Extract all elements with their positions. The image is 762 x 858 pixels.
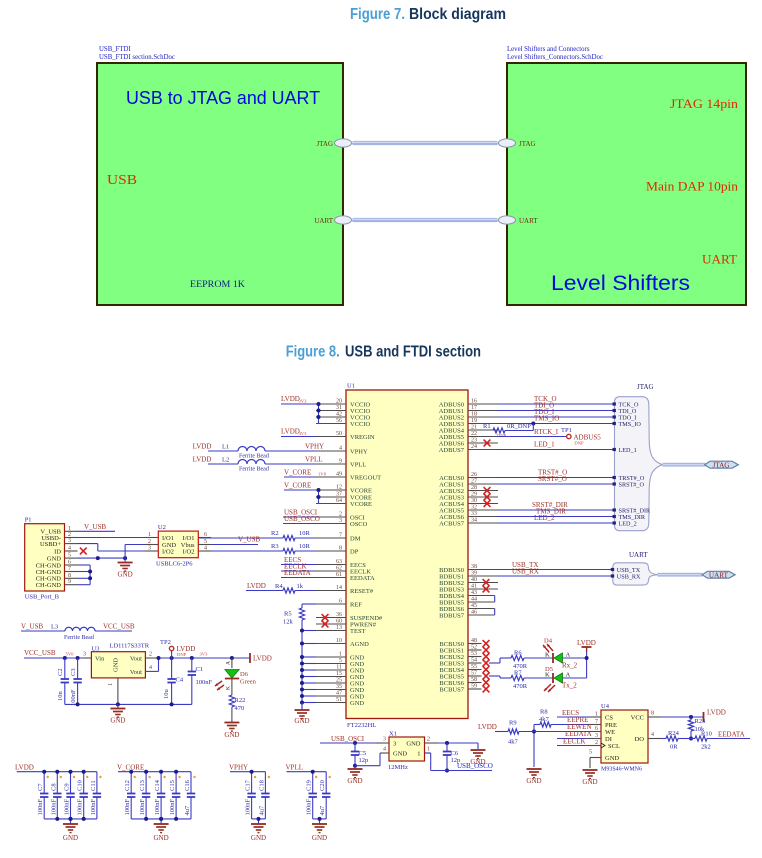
svg-text:5: 5	[204, 539, 207, 545]
svg-text:1: 1	[68, 526, 71, 532]
svg-text:DM: DM	[350, 535, 361, 542]
svg-text:VPLL: VPLL	[286, 764, 304, 772]
U1 pin 46 BDBUS7	[439, 610, 495, 620]
svg-text:42: 42	[336, 412, 342, 418]
svg-text:39: 39	[471, 571, 477, 577]
U1 pin 43 BDBUS4	[439, 590, 495, 600]
U2 pin 3 I/O2	[146, 546, 174, 556]
svg-text:20: 20	[336, 399, 342, 405]
U1 pin 36 SUSPEND#	[316, 612, 383, 622]
svg-text:UART: UART	[702, 252, 737, 267]
svg-text:R10: R10	[701, 731, 712, 738]
svg-text:40: 40	[471, 577, 477, 583]
svg-text:2: 2	[339, 512, 342, 518]
svg-text:3V3: 3V3	[299, 399, 308, 404]
svg-text:0R_DNP: 0R_DNP	[507, 423, 531, 430]
svg-text:27: 27	[471, 479, 477, 485]
svg-text:LD1117S33TR: LD1117S33TR	[110, 643, 150, 650]
ground symbol U3	[110, 704, 125, 724]
svg-text:3: 3	[383, 737, 386, 743]
IC U2 USBLC6-2P6 body	[156, 524, 198, 568]
sheet symbol label USB_FTDI	[99, 46, 175, 61]
resistor R9 4k7 (EEWEN)	[478, 720, 592, 746]
svg-text:2: 2	[427, 737, 430, 743]
svg-text:LED_2: LED_2	[619, 520, 637, 527]
net SRST#_DIR wire	[498, 501, 615, 510]
svg-text:R2: R2	[271, 530, 279, 537]
svg-text:VCC: VCC	[631, 714, 644, 721]
net USB_TX wire	[498, 561, 613, 570]
svg-text:OSCO: OSCO	[350, 521, 368, 528]
svg-text:USB_FTDI section.SchDoc: USB_FTDI section.SchDoc	[99, 54, 175, 61]
U1 pin 12 VCORE	[316, 485, 372, 495]
U1 pin 51 GND	[316, 697, 364, 707]
svg-text:I/O1: I/O1	[183, 535, 195, 542]
svg-text:Level Shifters: Level Shifters	[551, 272, 690, 295]
P1 pin 4 ID	[54, 546, 77, 556]
U1 pin 21 ADBUS4	[439, 425, 498, 435]
svg-text:ACBUS7: ACBUS7	[439, 520, 465, 527]
svg-text:EECLK: EECLK	[563, 737, 586, 745]
U1 pin 28 ACBUS2	[439, 485, 498, 495]
svg-text:100nF: 100nF	[77, 799, 84, 816]
svg-text:LVDD: LVDD	[281, 428, 300, 436]
U1 pin 33 ACBUS6	[439, 511, 498, 521]
svg-text:LVDD: LVDD	[193, 456, 212, 464]
svg-text:L1: L1	[222, 444, 229, 451]
svg-text:VPLL: VPLL	[350, 461, 366, 468]
net USB_OSCO wire	[425, 753, 493, 771]
svg-text:25: 25	[336, 678, 342, 684]
IC U3 LD1117S33TR body	[91, 643, 149, 678]
harness title UART	[629, 551, 648, 559]
net VCC_USB rail	[24, 649, 83, 660]
no-ERC SUSPEND#	[322, 614, 329, 621]
U1 pin 53 BCBUS2	[439, 651, 481, 661]
no-ERC ACBUS4	[484, 500, 491, 507]
svg-text:10R: 10R	[299, 543, 311, 550]
U3 pin 4 stub	[145, 658, 158, 671]
UART bus wire between blocks	[352, 218, 498, 222]
test point TP1 (ADBUS5)	[498, 427, 601, 446]
svg-text:JTAG: JTAG	[713, 461, 730, 469]
svg-text:JTAG 14pin: JTAG 14pin	[670, 96, 739, 111]
U1 pin 37 VCORE	[316, 492, 372, 502]
U4 pin 7 PRE	[588, 719, 617, 729]
harness title JTAG	[637, 383, 654, 391]
svg-text:4u7: 4u7	[319, 805, 326, 816]
svg-text:46: 46	[471, 610, 477, 616]
svg-text:35: 35	[336, 684, 342, 690]
svg-text:4: 4	[383, 747, 386, 753]
svg-text:6: 6	[204, 532, 207, 538]
svg-text:3: 3	[595, 733, 598, 739]
svg-text:8: 8	[339, 546, 342, 552]
svg-text:C13: C13	[139, 780, 146, 791]
svg-text:VCORE: VCORE	[350, 501, 372, 508]
resistor R23 10k pullup	[688, 717, 705, 741]
svg-text:100nF: 100nF	[50, 799, 57, 816]
U1 pin 56 VCCIO	[316, 418, 371, 428]
svg-text:UART: UART	[629, 551, 648, 559]
svg-text:D6: D6	[240, 671, 249, 678]
svg-text:UART: UART	[519, 217, 538, 225]
svg-text:U2: U2	[158, 524, 166, 531]
svg-text:8: 8	[651, 711, 654, 717]
svg-text:Ferrite Bead: Ferrite Bead	[239, 454, 269, 460]
svg-text:Vout: Vout	[130, 669, 142, 676]
svg-text:31: 31	[336, 405, 342, 411]
U1 pin 61 EEDATA	[316, 572, 375, 582]
U2 pin 4 I/O2	[183, 546, 211, 556]
svg-text:C3: C3	[70, 668, 77, 676]
resistor R3 10R (DP)	[199, 543, 316, 554]
svg-text:EEDATA: EEDATA	[718, 731, 745, 739]
power port LVDD (regulator)	[250, 653, 272, 663]
no-ERC BDBUS2	[483, 579, 490, 586]
sheet entry UART (right block)	[499, 216, 539, 225]
svg-text:VPHY: VPHY	[229, 764, 248, 772]
svg-text:P1: P1	[25, 517, 32, 524]
svg-text:TMS_IO: TMS_IO	[534, 415, 559, 423]
capacitor bank LVDD C7-C11	[15, 764, 102, 843]
P1 pin 9 CH-GND	[36, 579, 78, 589]
U3 pin 3 stub	[83, 652, 91, 659]
U1 pin 22 ADBUS5	[439, 431, 498, 441]
wire loop BDBUS4-BDBUS5	[494, 596, 496, 603]
svg-text:6: 6	[68, 560, 71, 566]
svg-text:R24: R24	[668, 730, 680, 737]
svg-text:1V8: 1V8	[318, 472, 327, 477]
svg-text:RTCK_I: RTCK_I	[534, 428, 559, 436]
svg-text:21: 21	[471, 425, 477, 431]
U1 pin 18 ADBUS2	[439, 412, 498, 422]
svg-text:GND: GND	[63, 834, 78, 842]
svg-text:PRE: PRE	[605, 722, 617, 729]
ground symbol C5	[347, 766, 362, 785]
svg-text:CS: CS	[605, 714, 613, 721]
sheet symbol label Level Shifters	[507, 46, 603, 61]
svg-text:1: 1	[108, 683, 114, 686]
svg-text:VREGIN: VREGIN	[350, 434, 375, 441]
svg-text:EEDATA: EEDATA	[284, 569, 311, 577]
GND bus wires to U1	[300, 629, 316, 705]
U4 pin 3 DI	[588, 733, 612, 743]
svg-text:USB to JTAG and UART: USB to JTAG and UART	[126, 88, 320, 108]
svg-text:63: 63	[336, 559, 342, 565]
svg-text:4: 4	[651, 732, 654, 738]
svg-text:Rx_2: Rx_2	[562, 662, 578, 670]
svg-text:12p: 12p	[359, 757, 369, 764]
harness connector UART	[611, 563, 658, 585]
svg-text:C20: C20	[319, 780, 326, 791]
ferrite bead L2	[193, 456, 323, 473]
net V_USB wire at P1	[78, 523, 116, 532]
svg-text:GND: GND	[582, 778, 597, 786]
capacitor bank VPHY C17-C18	[229, 764, 270, 843]
svg-text:8: 8	[68, 573, 71, 579]
svg-text:C11: C11	[90, 780, 97, 791]
text USB	[107, 173, 137, 188]
svg-text:24: 24	[471, 444, 477, 450]
sheet entry JTAG (left block)	[316, 139, 351, 148]
svg-text:GND: GND	[251, 834, 266, 842]
U1 pin 50 VREGIN	[316, 431, 375, 441]
U1 pin 4 VPHY	[316, 446, 368, 456]
wire X1 pin2 to gnd	[438, 741, 479, 749]
svg-text:VPHY: VPHY	[305, 443, 324, 451]
svg-text:100nF: 100nF	[139, 799, 146, 816]
svg-text:R7: R7	[514, 670, 522, 677]
svg-text:5: 5	[589, 750, 592, 756]
ferrite bead L3	[21, 623, 135, 642]
svg-text:100nF: 100nF	[90, 799, 97, 816]
svg-text:V_USB: V_USB	[238, 536, 261, 544]
wire USBD+ to U2	[78, 544, 146, 551]
net USB_OSCI wire	[320, 735, 376, 745]
X1 pin 2	[406, 737, 437, 748]
svg-text:4: 4	[68, 546, 71, 552]
svg-text:100nF: 100nF	[306, 799, 313, 816]
resistor R10 2k2	[691, 731, 750, 751]
U1 pin 55 BCBUS4	[439, 664, 481, 674]
svg-text:R1: R1	[483, 423, 491, 430]
svg-text:12: 12	[336, 485, 342, 491]
svg-text:CH-GND: CH-GND	[36, 582, 62, 589]
svg-text:LED_1: LED_1	[619, 447, 637, 454]
svg-text:U1: U1	[347, 383, 355, 390]
bus to UART port	[658, 573, 703, 577]
U3 pin 1 GND stub	[108, 678, 118, 704]
svg-text:16: 16	[471, 399, 477, 405]
U4 pin 5 GND	[589, 750, 619, 769]
svg-text:DNP: DNP	[177, 652, 187, 657]
svg-text:I/O2: I/O2	[183, 548, 195, 555]
svg-text:AGND: AGND	[350, 641, 369, 648]
svg-text:Ferrite Bead: Ferrite Bead	[239, 467, 269, 473]
capacitor C5 12p	[351, 743, 368, 768]
U2 pin 1 I/O1	[146, 532, 174, 542]
svg-text:WE: WE	[605, 729, 615, 736]
svg-text:7: 7	[68, 566, 71, 572]
no-ERC ID pin	[80, 548, 87, 555]
svg-text:VREGOUT: VREGOUT	[350, 474, 381, 481]
capacitor bank VPLL C19-C20	[286, 764, 331, 843]
P1 pin 5 GND	[47, 553, 78, 563]
svg-text:10n: 10n	[57, 691, 64, 702]
svg-text:47: 47	[336, 691, 342, 697]
svg-text:V_CORE: V_CORE	[284, 482, 311, 490]
svg-text:52: 52	[471, 645, 477, 651]
resistor R2 10R (DM)	[199, 530, 316, 541]
svg-text:REF: REF	[350, 601, 362, 608]
no-ERC BDBUS3	[483, 586, 490, 593]
svg-text:GND: GND	[605, 755, 619, 762]
U1 pin 31 VCCIO	[316, 405, 371, 415]
svg-text:Figure 7.: Figure 7.	[350, 6, 405, 23]
U1 pin 10 AGND	[316, 638, 369, 648]
JTAG bus wire between blocks	[352, 141, 498, 145]
svg-text:GND: GND	[347, 777, 362, 785]
U1 pin 42 VCCIO	[316, 412, 371, 422]
svg-text:15: 15	[336, 671, 342, 677]
U1 pin 52 BCBUS1	[439, 645, 481, 655]
svg-text:26: 26	[471, 472, 477, 478]
svg-text:3V3: 3V3	[200, 652, 209, 657]
sheet symbol Level Shifters (right green block)	[507, 63, 746, 305]
svg-text:C18: C18	[258, 780, 265, 791]
GND rail under U3	[65, 702, 192, 706]
svg-text:Level Shifters_Connectors.SchD: Level Shifters_Connectors.SchDoc	[507, 54, 603, 61]
power net V_CORE to VREGOUT	[284, 469, 327, 478]
svg-text:4k7: 4k7	[508, 739, 519, 746]
svg-text:VCC_USB: VCC_USB	[103, 623, 135, 631]
svg-text:4u7: 4u7	[184, 805, 191, 816]
U1 pin 26 ACBUS0	[439, 472, 498, 482]
ferrite bead L1	[193, 443, 324, 460]
svg-text:U3: U3	[92, 646, 100, 653]
U1 pin 34 ACBUS7	[439, 518, 498, 528]
svg-text:22: 22	[471, 431, 477, 437]
U1 pin 62 EECLK	[316, 566, 371, 576]
svg-text:3V3: 3V3	[299, 431, 308, 436]
svg-text:GND: GND	[118, 571, 133, 579]
net EECS wire to U4	[557, 709, 588, 717]
svg-text:K: K	[545, 652, 550, 659]
svg-text:GND: GND	[526, 777, 541, 785]
P1 pin 7 CH-GND	[36, 566, 78, 576]
test point TP2	[160, 639, 195, 658]
IC U1 FT2232HL body	[346, 383, 468, 730]
svg-text:9: 9	[68, 579, 71, 585]
connector P1 USB_Port_B body	[25, 517, 65, 601]
svg-text:60: 60	[336, 619, 342, 625]
svg-text:19: 19	[471, 418, 477, 424]
U1 pin 8 DP	[316, 546, 359, 556]
figure 7 caption	[350, 6, 506, 23]
svg-text:37: 37	[336, 492, 342, 498]
net LED_1 wire	[498, 441, 615, 450]
capacitor C6 12p	[443, 743, 460, 773]
svg-text:LVDD: LVDD	[577, 639, 596, 647]
U1 pin 16 ADBUS0	[439, 399, 498, 409]
svg-text:4: 4	[149, 665, 152, 671]
wire VCCIO bus vertical	[317, 402, 321, 424]
sheet entry UART (left block)	[314, 216, 351, 225]
svg-text:SCL: SCL	[608, 743, 620, 750]
svg-text:Block diagram: Block diagram	[409, 6, 506, 23]
svg-text:USB_OSCI: USB_OSCI	[331, 735, 365, 743]
U1 pin 17 ADBUS1	[439, 405, 498, 415]
U1 pin 30 ACBUS4	[439, 498, 498, 508]
svg-text:JTAG: JTAG	[316, 140, 333, 148]
svg-text:61: 61	[336, 572, 342, 578]
svg-text:44: 44	[471, 597, 477, 603]
svg-text:BDBUS7: BDBUS7	[439, 612, 465, 619]
svg-text:1: 1	[417, 751, 420, 758]
P1 pin 2 USBD-	[41, 532, 77, 542]
LED D6 green indicator	[215, 658, 257, 695]
svg-text:100nF: 100nF	[124, 799, 131, 816]
svg-text:R5: R5	[284, 611, 292, 618]
power net LVDD to VREGIN	[281, 428, 316, 437]
harness connector JTAG	[613, 397, 663, 531]
U1 pin 39 BDBUS1	[439, 571, 498, 581]
U1 pin 15 GND	[316, 671, 364, 681]
svg-text:V_USB: V_USB	[84, 523, 107, 531]
resistor R24 0R (DO)	[661, 730, 691, 751]
no-ERC ACBUS2	[484, 487, 491, 494]
net TMS_IO wire	[498, 415, 615, 426]
svg-text:ADBUS7: ADBUS7	[439, 447, 465, 454]
svg-text:51: 51	[336, 697, 342, 703]
X1 pin 3	[376, 737, 396, 748]
svg-text:12k: 12k	[283, 619, 294, 626]
svg-text:56: 56	[336, 418, 342, 424]
port UART	[702, 571, 735, 579]
U2 pin 6 I/O1	[183, 532, 211, 542]
svg-text:9: 9	[339, 459, 342, 465]
svg-text:TEST: TEST	[350, 628, 366, 635]
U4 pin 2 SCL	[588, 740, 620, 750]
svg-text:50: 50	[336, 431, 342, 437]
svg-text:30: 30	[471, 498, 477, 504]
svg-text:3: 3	[148, 546, 151, 552]
U1 pin 14 RESET#	[316, 585, 374, 595]
X1 pin 1	[417, 747, 430, 758]
svg-text:USB_FTDI: USB_FTDI	[99, 46, 131, 53]
U1 pin 58 BCBUS6	[439, 677, 481, 687]
LED D4 Rx_2	[543, 638, 587, 670]
U1 pin 59 BCBUS7	[439, 684, 481, 694]
svg-text:EEPROM 1K: EEPROM 1K	[190, 280, 245, 290]
net TDO_I wire	[498, 408, 615, 417]
power port LVDD (U4 VCC)	[661, 709, 726, 723]
svg-text:USB_OSCO: USB_OSCO	[457, 762, 493, 770]
power port LVDD (LED)	[577, 639, 596, 678]
svg-text:BCBUS7: BCBUS7	[439, 686, 464, 693]
svg-text:USB_OSCO: USB_OSCO	[284, 515, 320, 523]
net V_USB label near U2	[211, 536, 261, 545]
svg-text:DNP: DNP	[574, 441, 584, 446]
U1 pin 49 VREGOUT	[316, 472, 381, 482]
svg-text:GND: GND	[113, 658, 120, 672]
svg-text:C19: C19	[306, 780, 313, 791]
svg-text:C1: C1	[196, 666, 204, 673]
svg-text:Vout: Vout	[130, 656, 142, 663]
U1 pin 45 BDBUS6	[439, 603, 495, 613]
svg-text:100nF: 100nF	[64, 799, 71, 816]
svg-text:470R: 470R	[513, 683, 528, 690]
U4 pin 4 DO	[635, 732, 661, 743]
text USB to JTAG and UART	[126, 88, 320, 108]
svg-text:38: 38	[471, 564, 477, 570]
svg-text:A: A	[226, 661, 232, 665]
svg-text:UART: UART	[314, 217, 333, 225]
svg-text:49: 49	[336, 472, 342, 478]
svg-text:R8: R8	[540, 709, 548, 716]
svg-text:4: 4	[339, 446, 342, 452]
svg-text:1: 1	[427, 747, 430, 753]
svg-text:C17: C17	[245, 779, 252, 791]
svg-text:USBLC6-2P6: USBLC6-2P6	[156, 561, 193, 568]
svg-text:LVDD: LVDD	[707, 709, 726, 717]
svg-text:3: 3	[339, 518, 342, 524]
U1 pin 41 BDBUS3	[439, 584, 498, 594]
svg-text:45: 45	[471, 603, 477, 609]
bus to JTAG port	[663, 463, 706, 467]
svg-text:LVDD: LVDD	[253, 655, 272, 663]
